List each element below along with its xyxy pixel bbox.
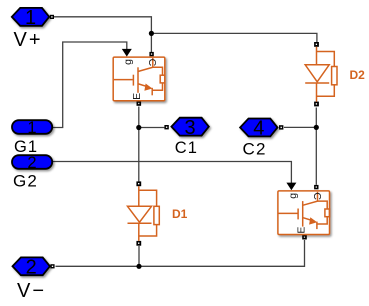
svg-text:g: g bbox=[122, 59, 134, 65]
svg-text:2: 2 bbox=[26, 257, 37, 279]
svg-text:V+: V+ bbox=[14, 29, 43, 51]
arrow into IGBT1 gate bbox=[122, 49, 132, 57]
svg-text:g: g bbox=[287, 193, 299, 199]
svg-text:G2: G2 bbox=[13, 171, 38, 190]
wire G1 to IGBT1 gate bbox=[51, 42, 127, 128]
diode D2 bbox=[305, 42, 337, 106]
svg-text:D1: D1 bbox=[172, 207, 188, 221]
wire junction to IGBT1 C bbox=[150, 33, 152, 52]
wire V+ to top junction bbox=[54, 17, 151, 34]
node junction top (151,33) bbox=[149, 31, 154, 36]
svg-text:1: 1 bbox=[27, 119, 36, 137]
diode D1 bbox=[128, 181, 160, 245]
wire junction to C1 port bbox=[139, 127, 165, 129]
node junction left (139,127) bbox=[136, 125, 141, 130]
wire D2 bottom to IGBT2 C bbox=[315, 108, 317, 185]
port 4 C2 (hexagon) bbox=[240, 118, 283, 140]
svg-text:E: E bbox=[131, 93, 143, 100]
port 1 G1 (oval inport) bbox=[12, 119, 52, 137]
svg-text:C1: C1 bbox=[175, 139, 198, 157]
svg-text:C: C bbox=[311, 192, 323, 200]
arrow into IGBT2 gate bbox=[286, 183, 296, 191]
svg-text:D2: D2 bbox=[350, 68, 366, 82]
svg-text:E: E bbox=[296, 227, 308, 234]
port 2 G2 (oval inport) bbox=[12, 154, 52, 172]
svg-text:1: 1 bbox=[25, 7, 36, 29]
transistor IGBT1 (block) bbox=[113, 52, 165, 106]
port 1 V+ (hexagon) bbox=[12, 7, 54, 29]
svg-text:3: 3 bbox=[185, 117, 196, 139]
wire IGBT1 E down to D1 top bbox=[138, 107, 140, 182]
wire G2 to IGBT2 gate bbox=[50, 162, 291, 184]
wire IGBT2 E to V- rail bbox=[56, 240, 305, 266]
svg-text:C: C bbox=[146, 59, 158, 67]
transistor IGBT2 (block) bbox=[278, 185, 330, 240]
node junction bottom (139,266) bbox=[136, 264, 141, 269]
port 2 V- (hexagon) bbox=[13, 257, 55, 279]
wire junction to D2 top bbox=[151, 33, 317, 42]
svg-text:2: 2 bbox=[27, 154, 36, 172]
port 3 C1 (hexagon) bbox=[164, 117, 208, 139]
svg-text:V−: V− bbox=[17, 280, 46, 302]
svg-text:4: 4 bbox=[253, 118, 264, 140]
node junction right (316,127) bbox=[314, 125, 319, 130]
svg-text:C2: C2 bbox=[243, 139, 267, 158]
wire D1 bottom to V- rail bbox=[138, 246, 140, 266]
wire C2 to right junction bbox=[284, 126, 316, 128]
